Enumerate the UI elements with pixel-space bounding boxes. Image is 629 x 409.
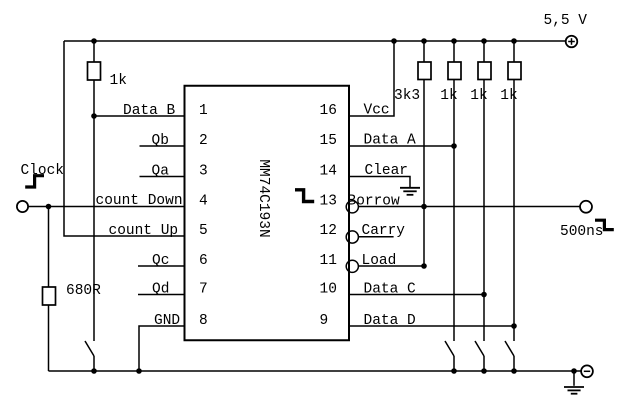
- svg-text:Data B: Data B: [123, 103, 176, 119]
- wire Vcc (pin 16) riser: [349, 41, 394, 116]
- junction S3 / bottom rail: [481, 368, 487, 374]
- falling-edge symbol at output: [595, 220, 614, 229]
- wire left rail to count Up (pin 5): [64, 41, 185, 236]
- wire Data C (pin 10): [349, 294, 484, 296]
- wire Qc stub (pin 6): [138, 265, 185, 267]
- svg-text:12: 12: [320, 223, 337, 239]
- power terminal +5,5V: [566, 36, 578, 48]
- svg-text:500ns: 500ns: [560, 224, 604, 240]
- wire Load (pin 11): [358, 265, 424, 267]
- svg-text:Qb: Qb: [152, 133, 169, 149]
- svg-text:1k: 1k: [500, 88, 517, 104]
- svg-text:Vcc: Vcc: [364, 103, 390, 119]
- switch S3: [475, 341, 484, 356]
- junction Vcc riser / top rail: [391, 38, 397, 44]
- wire Data B to pin 1: [94, 115, 185, 117]
- wire Data D (pin 9): [349, 325, 514, 327]
- wire top supply rail: [64, 40, 566, 42]
- junction top rail / R4: [451, 38, 457, 44]
- pin 12 inversion bubble (Carry): [346, 231, 358, 243]
- junction GND / bottom rail: [136, 368, 142, 374]
- svg-text:4: 4: [199, 194, 208, 210]
- falling-edge symbol at pin 13: [295, 190, 314, 202]
- wire Qa stub (pin 3): [140, 176, 185, 178]
- junction S1 / bottom rail: [91, 368, 97, 374]
- svg-text:count Down: count Down: [96, 193, 183, 209]
- svg-text:Carry: Carry: [362, 223, 406, 239]
- svg-text:Load: Load: [362, 253, 397, 269]
- junction clock / R2: [46, 204, 52, 210]
- wire count Down to pin 4: [28, 206, 184, 208]
- svg-text:GND: GND: [154, 313, 180, 329]
- wire Borrow (pin 13) to output: [358, 206, 580, 208]
- resistor R2 680R: [48, 207, 50, 288]
- svg-text:3k3: 3k3: [394, 88, 420, 104]
- svg-text:Qc: Qc: [152, 253, 169, 269]
- switch S4: [505, 341, 514, 356]
- junction R1 / Data B: [91, 113, 97, 119]
- switch S2: [445, 341, 454, 356]
- svg-text:9: 9: [320, 313, 329, 329]
- junction Data C / 1k column: [481, 292, 487, 298]
- svg-text:Data C: Data C: [364, 282, 417, 298]
- junction Data D / 1k column: [511, 323, 517, 329]
- svg-text:7: 7: [199, 282, 208, 298]
- input terminal (clock): [17, 201, 28, 212]
- resistor R1 1k: [93, 41, 95, 62]
- svg-text:2: 2: [199, 133, 208, 149]
- svg-text:10: 10: [320, 282, 337, 298]
- pin 11 inversion bubble (Load): [346, 260, 358, 272]
- wire Clear (pin 14) to ground: [349, 177, 410, 188]
- svg-text:count Up: count Up: [109, 223, 179, 239]
- wire bottom ground rail: [49, 370, 582, 372]
- junction S2 / bottom rail: [451, 368, 457, 374]
- svg-text:6: 6: [199, 253, 208, 269]
- svg-text:Qd: Qd: [152, 282, 169, 298]
- junction Load / 3k3 column: [421, 263, 427, 269]
- svg-text:8: 8: [199, 313, 208, 329]
- svg-text:Data D: Data D: [364, 313, 416, 329]
- resistor R6 1k: [513, 41, 515, 62]
- junction top rail / R1: [91, 38, 97, 44]
- svg-text:16: 16: [320, 103, 337, 119]
- svg-text:1k: 1k: [110, 73, 127, 89]
- op-amp U1 body MM74C193N: [185, 86, 350, 341]
- svg-text:5: 5: [199, 223, 208, 239]
- junction S4 / bottom rail: [511, 368, 517, 374]
- junction top rail / R3: [421, 38, 427, 44]
- clock rising-edge symbol: [25, 176, 44, 187]
- svg-text:Clear: Clear: [365, 163, 409, 179]
- svg-text:14: 14: [320, 164, 337, 180]
- output terminal (Borrow): [580, 201, 592, 213]
- junction top rail / R5: [481, 38, 487, 44]
- resistor R4 1k: [453, 41, 455, 62]
- svg-text:11: 11: [320, 253, 337, 269]
- svg-text:1k: 1k: [440, 88, 457, 104]
- resistor R3 3k3: [423, 41, 425, 62]
- ground symbol (Clear): [400, 187, 420, 189]
- wire GND (pin 8) to bottom rail: [139, 326, 185, 371]
- wire Carry stub (pin 12): [358, 236, 393, 238]
- svg-text:Borrow: Borrow: [348, 194, 401, 210]
- svg-text:3: 3: [199, 164, 208, 180]
- wire 3k3 column Borrow-Load: [423, 207, 425, 267]
- svg-text:1k: 1k: [470, 88, 487, 104]
- svg-text:5,5 V: 5,5 V: [544, 13, 588, 29]
- wire Qd stub (pin 7): [138, 294, 185, 296]
- svg-text:Data A: Data A: [364, 133, 417, 149]
- junction bottom rail / ground: [571, 368, 577, 374]
- wire Qb stub (pin 2): [140, 145, 185, 147]
- svg-text:13: 13: [320, 194, 337, 210]
- junction Data A / 1k column: [451, 143, 457, 149]
- wire Data A (pin 15): [349, 145, 454, 147]
- wire Data B column down to switch S1: [93, 116, 95, 341]
- junction top rail / R6: [511, 38, 517, 44]
- ground symbol (bottom rail): [573, 371, 575, 386]
- svg-text:Qa: Qa: [152, 164, 170, 180]
- switch S1: [85, 341, 94, 356]
- svg-text:15: 15: [320, 133, 337, 149]
- svg-text:1: 1: [199, 103, 208, 119]
- pin 13 inversion bubble (Borrow): [346, 201, 358, 213]
- svg-text:MM74C193N: MM74C193N: [255, 159, 271, 237]
- junction Borrow / 3k3 column: [421, 204, 427, 210]
- negative terminal: [581, 365, 593, 377]
- resistor R5 1k: [483, 41, 485, 62]
- svg-text:680R: 680R: [66, 283, 101, 299]
